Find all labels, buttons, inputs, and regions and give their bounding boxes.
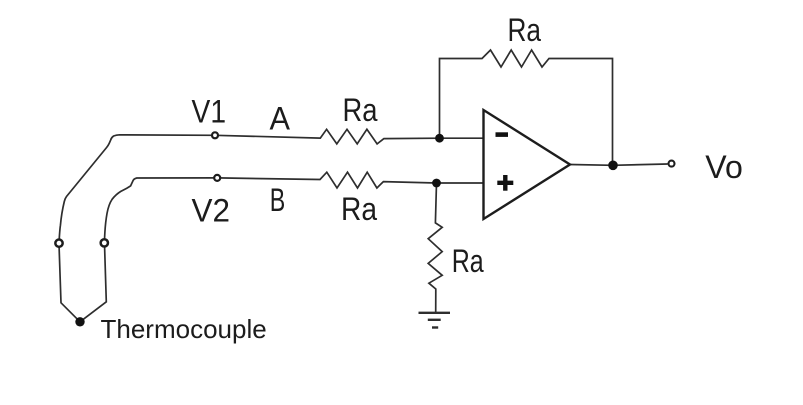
svg-text:Ra: Ra bbox=[343, 92, 378, 128]
svg-text:B: B bbox=[270, 182, 286, 218]
svg-text:V1: V1 bbox=[192, 94, 227, 130]
svg-text:Ra: Ra bbox=[508, 12, 542, 48]
svg-text:A: A bbox=[270, 101, 291, 137]
svg-text:V2: V2 bbox=[192, 193, 231, 229]
svg-text:Ra: Ra bbox=[341, 191, 377, 227]
svg-text:Ra: Ra bbox=[452, 243, 484, 279]
svg-text:Thermocouple: Thermocouple bbox=[101, 314, 267, 344]
svg-text:Vo: Vo bbox=[705, 149, 743, 185]
